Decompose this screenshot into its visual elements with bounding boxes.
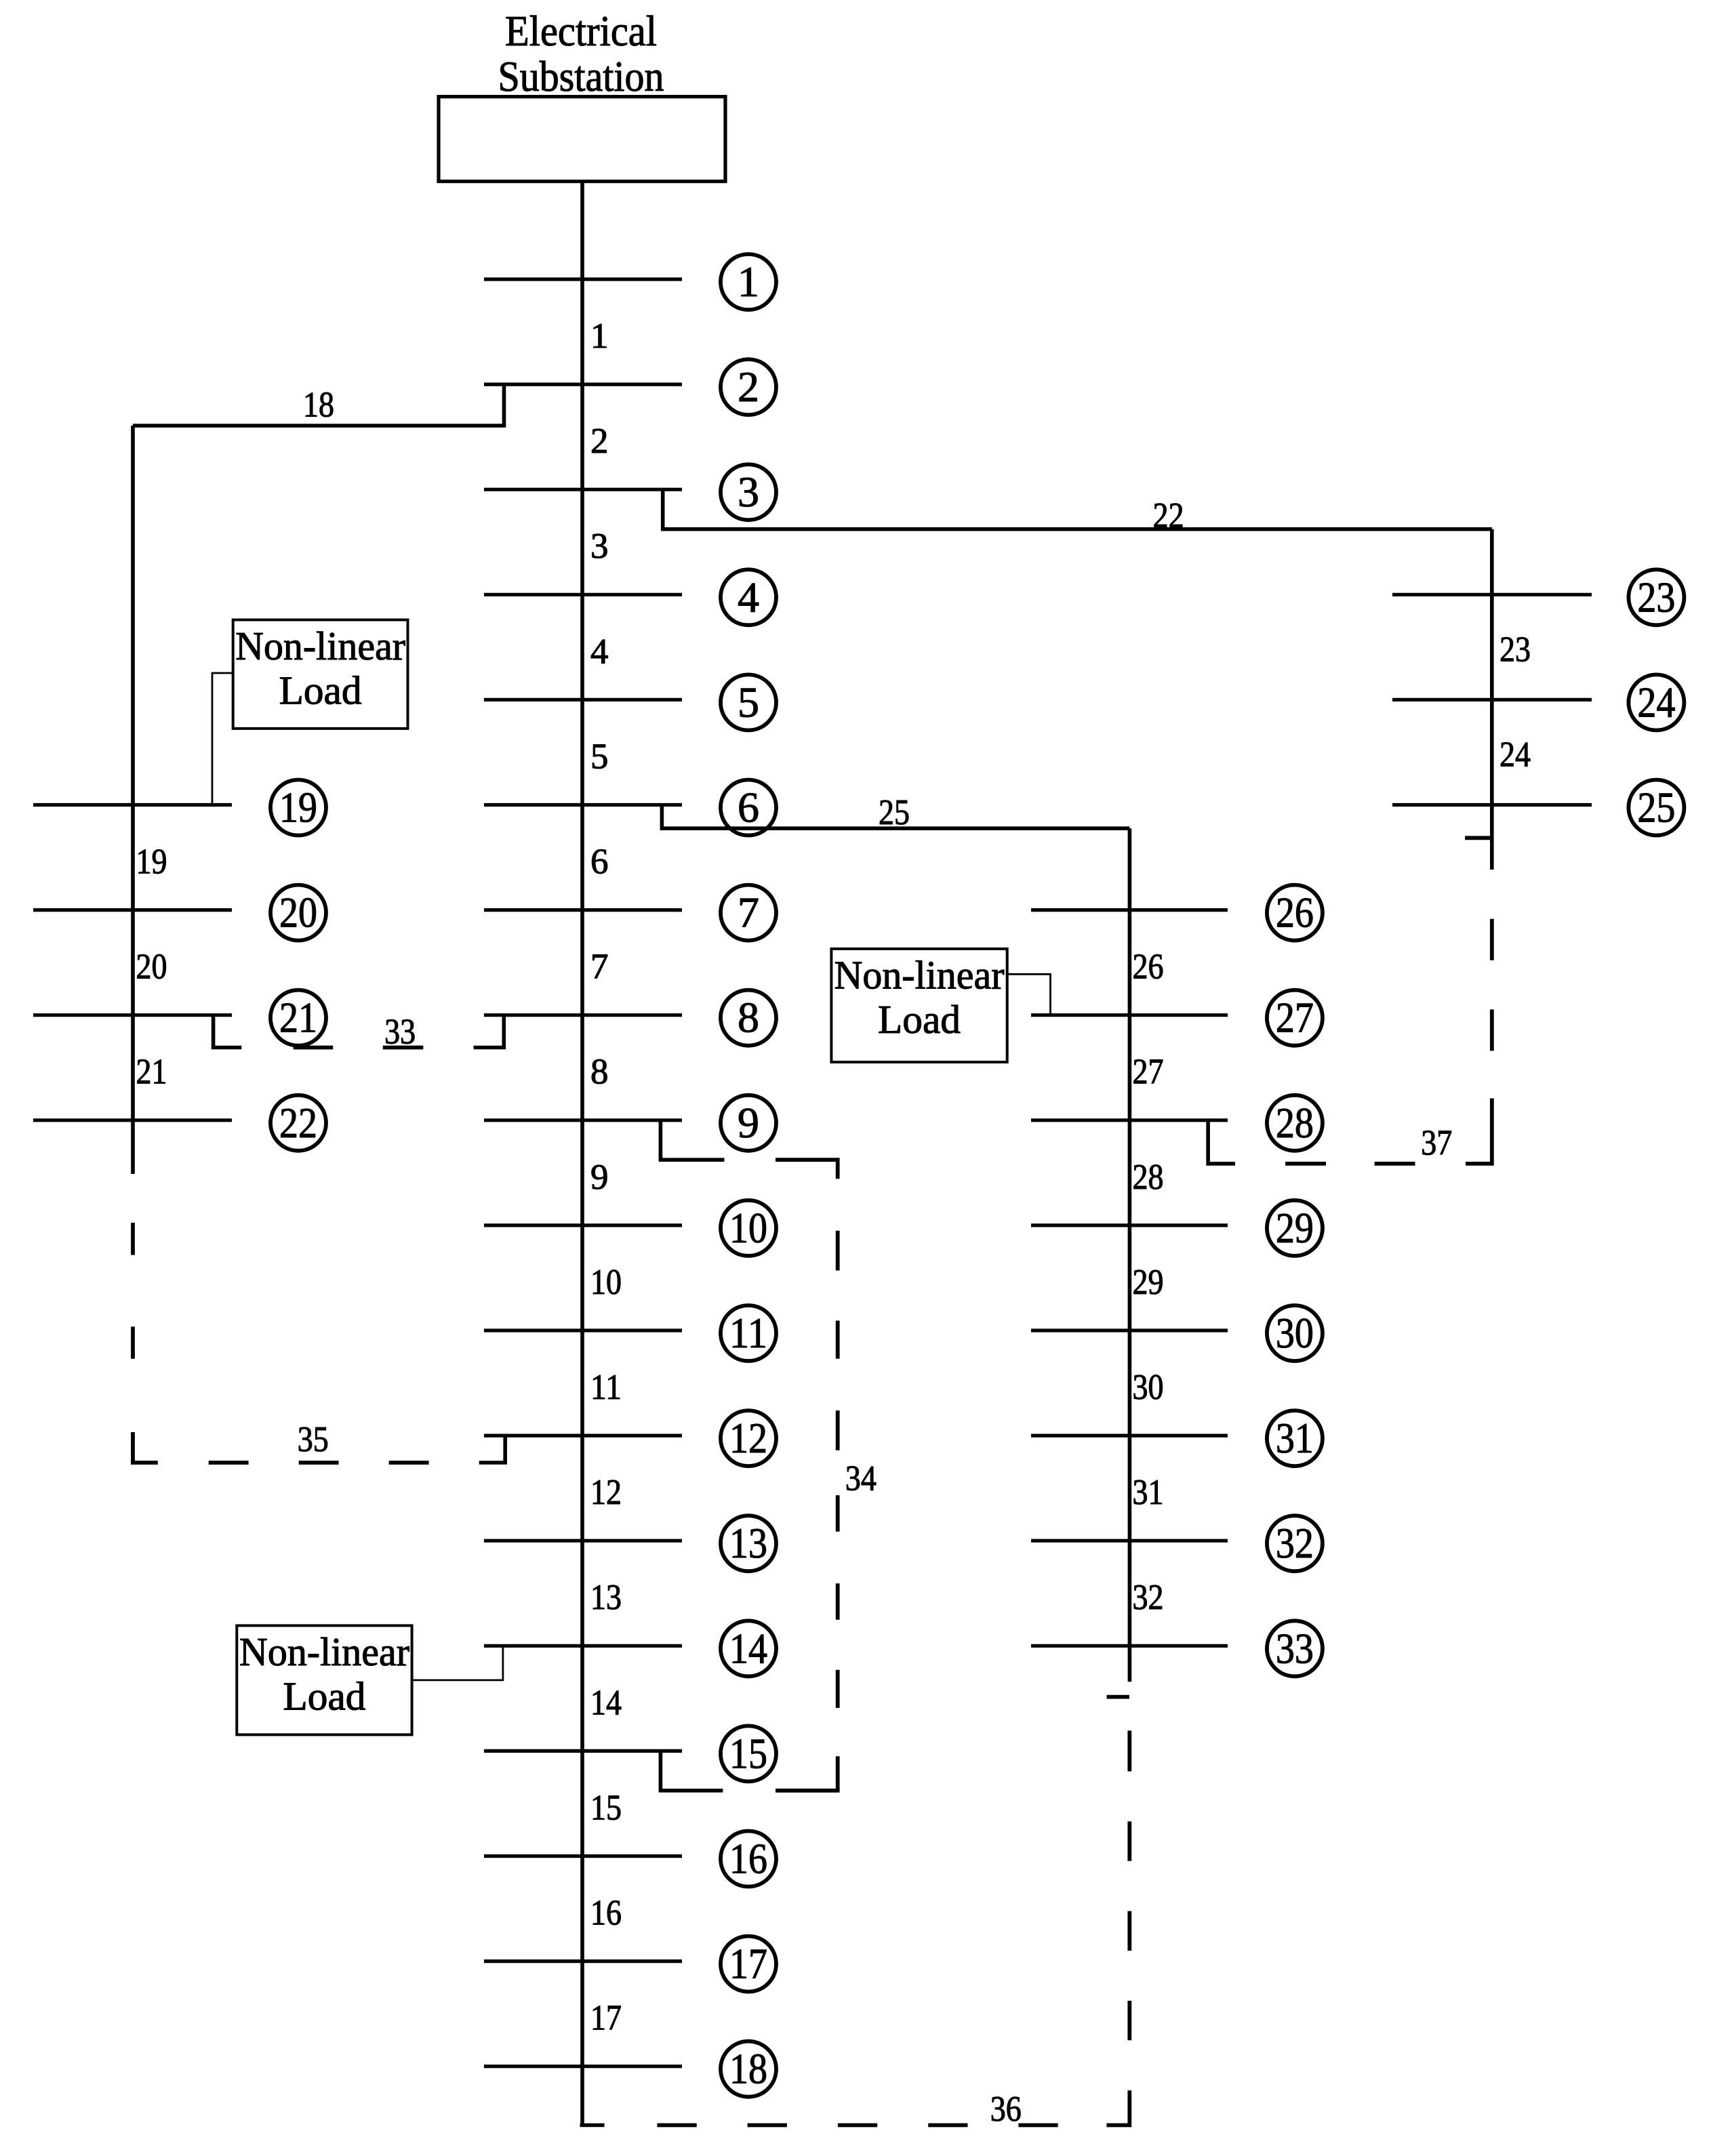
svg-text:14: 14 bbox=[729, 1624, 767, 1672]
svg-text:Substation: Substation bbox=[498, 52, 664, 100]
bus 23 bar bbox=[1392, 593, 1592, 596]
tie line 34 dash 3 bbox=[836, 1410, 840, 1450]
bus 10 bar bbox=[484, 1223, 682, 1227]
tie line 37 corner dash bbox=[1466, 1099, 1492, 1164]
tie line 36 dash 5 bbox=[1018, 2123, 1058, 2128]
node 25 circle bbox=[1628, 780, 1684, 836]
bus 14 bar bbox=[484, 1644, 682, 1648]
tie line 37 dash b bbox=[1375, 1162, 1415, 1166]
svg-text:Non-linear: Non-linear bbox=[239, 1629, 409, 1674]
svg-text:27: 27 bbox=[1133, 1053, 1164, 1092]
tie line 34 top jog (from bus 9) bbox=[660, 1120, 724, 1160]
node 9 circle bbox=[721, 1095, 776, 1151]
svg-text:21: 21 bbox=[279, 994, 317, 1042]
tie line 36 vertical dash 2 bbox=[1127, 1911, 1131, 1951]
svg-text:5: 5 bbox=[590, 737, 609, 776]
bus 6 bar bbox=[484, 803, 682, 807]
tie line 34 dash 1 bbox=[836, 1231, 840, 1271]
svg-text:Electrical: Electrical bbox=[505, 7, 657, 55]
non-linear load 3 box bbox=[237, 1625, 411, 1734]
tie line 37 left jog (from bus 28) bbox=[1208, 1120, 1235, 1164]
svg-text:18: 18 bbox=[729, 2045, 767, 2093]
bus 22 bar bbox=[33, 1118, 232, 1122]
node 11 circle bbox=[721, 1305, 776, 1361]
svg-text:12: 12 bbox=[590, 1473, 622, 1512]
svg-text:10: 10 bbox=[590, 1263, 622, 1302]
tie line 36 vertical dash 4 bbox=[1127, 1730, 1131, 1771]
bus 28 bar bbox=[1031, 1118, 1228, 1122]
svg-text:28: 28 bbox=[1133, 1158, 1164, 1197]
tie line 34 corner dash bottom bbox=[776, 1756, 838, 1791]
non-linear load 2 connection wire to bus 27 bbox=[1007, 974, 1051, 1015]
bus 25 bar bbox=[1392, 803, 1592, 807]
node 20 circle bbox=[270, 885, 326, 941]
svg-text:11: 11 bbox=[590, 1368, 622, 1407]
node 32 circle bbox=[1267, 1516, 1323, 1571]
svg-text:15: 15 bbox=[590, 1788, 622, 1827]
svg-text:21: 21 bbox=[136, 1053, 167, 1092]
bus 2 bar bbox=[484, 382, 682, 386]
svg-text:7: 7 bbox=[590, 948, 609, 987]
bus 19 bar bbox=[33, 803, 232, 807]
wire 25 (bus6 to buses 26-33 branch) bbox=[662, 805, 1129, 829]
bus 31 bar bbox=[1031, 1434, 1228, 1438]
svg-text:11: 11 bbox=[729, 1309, 767, 1357]
left branch feeder (buses 19-22) bbox=[131, 426, 135, 1174]
tie line 33 dash a bbox=[294, 1046, 334, 1050]
bus 5 bar bbox=[484, 698, 682, 701]
svg-text:23: 23 bbox=[1499, 630, 1531, 669]
tie line 36 end tick (below bus 33) bbox=[1107, 1695, 1129, 1699]
bus 13 bar bbox=[484, 1539, 682, 1543]
svg-text:3: 3 bbox=[738, 468, 759, 516]
tie line 36 corner dash bbox=[1106, 2090, 1129, 2125]
svg-text:37: 37 bbox=[1421, 1124, 1452, 1163]
svg-text:25: 25 bbox=[1637, 784, 1675, 832]
bus 12 bar bbox=[484, 1434, 682, 1438]
node 30 circle bbox=[1267, 1305, 1323, 1361]
node 6 circle bbox=[721, 780, 776, 836]
node 21 circle bbox=[270, 990, 326, 1046]
tie line 36 start piece at main feeder bbox=[580, 2123, 605, 2128]
svg-text:Non-linear: Non-linear bbox=[834, 953, 1005, 998]
tie line 36 dash 1 bbox=[657, 2123, 696, 2128]
svg-text:28: 28 bbox=[1276, 1099, 1314, 1147]
svg-text:23: 23 bbox=[1637, 573, 1675, 621]
svg-text:20: 20 bbox=[136, 948, 167, 987]
svg-text:19: 19 bbox=[279, 784, 317, 832]
tie line 34 bottom jog (to bus 15) bbox=[660, 1751, 723, 1790]
node 15 circle bbox=[721, 1726, 776, 1781]
svg-text:32: 32 bbox=[1276, 1519, 1314, 1567]
svg-text:14: 14 bbox=[590, 1683, 622, 1722]
svg-text:9: 9 bbox=[590, 1158, 609, 1197]
bus 33 bar bbox=[1031, 1644, 1228, 1648]
node 23 circle bbox=[1628, 569, 1684, 625]
bus 9 bar bbox=[484, 1118, 682, 1122]
wire 18 (bus2 to left branch) bbox=[133, 384, 504, 426]
tie line 37 dash d bbox=[1490, 919, 1494, 960]
far right feeder (buses 23-25) bbox=[1490, 529, 1494, 870]
tie line 36 dash 3 bbox=[838, 2123, 877, 2128]
node 29 circle bbox=[1267, 1200, 1323, 1256]
node 18 circle bbox=[721, 2041, 776, 2097]
node 33 circle bbox=[1267, 1621, 1323, 1676]
node 3 circle bbox=[721, 464, 776, 520]
tie line 35 dash b bbox=[131, 1326, 135, 1358]
tie line 34 corner dash top bbox=[776, 1160, 838, 1179]
svg-text:15: 15 bbox=[729, 1729, 767, 1777]
non-linear load 2 box bbox=[831, 949, 1007, 1062]
bus 7 bar bbox=[484, 908, 682, 912]
tie line 33 dash b bbox=[383, 1046, 424, 1050]
svg-text:4: 4 bbox=[590, 632, 609, 671]
middle right feeder (buses 26-33) bbox=[1128, 828, 1132, 1682]
svg-text:17: 17 bbox=[590, 1999, 622, 2038]
svg-text:1: 1 bbox=[738, 258, 759, 306]
node 27 circle bbox=[1267, 990, 1323, 1046]
svg-text:Load: Load bbox=[279, 668, 362, 713]
bus 32 bar bbox=[1031, 1539, 1228, 1543]
svg-text:16: 16 bbox=[590, 1894, 622, 1933]
electrical substation box bbox=[439, 97, 725, 182]
node 14 circle bbox=[721, 1621, 776, 1676]
svg-text:3: 3 bbox=[590, 527, 609, 566]
svg-text:24: 24 bbox=[1637, 678, 1675, 726]
bus 1 bar bbox=[484, 277, 682, 281]
tie line 36 vertical dash 3 bbox=[1127, 1821, 1131, 1860]
node 12 circle bbox=[721, 1410, 776, 1466]
svg-text:34: 34 bbox=[845, 1459, 877, 1499]
bus 21 bar bbox=[33, 1013, 232, 1017]
svg-text:Non-linear: Non-linear bbox=[235, 624, 405, 668]
node 4 circle bbox=[721, 569, 776, 625]
bus 8 bar bbox=[484, 1013, 682, 1017]
svg-text:30: 30 bbox=[1276, 1309, 1314, 1357]
svg-text:13: 13 bbox=[729, 1519, 767, 1567]
node 22 circle bbox=[270, 1095, 326, 1151]
svg-text:10: 10 bbox=[729, 1204, 767, 1252]
tie line 35 dash a bbox=[131, 1223, 135, 1255]
tie line 37 dash a bbox=[1285, 1162, 1326, 1166]
svg-text:19: 19 bbox=[136, 842, 167, 882]
svg-text:30: 30 bbox=[1133, 1368, 1164, 1407]
node 28 circle bbox=[1267, 1095, 1323, 1151]
non-linear load 3 connection wire to bus 14 bbox=[412, 1646, 503, 1680]
svg-text:22: 22 bbox=[279, 1099, 317, 1147]
svg-text:17: 17 bbox=[729, 1940, 767, 1988]
svg-text:35: 35 bbox=[298, 1420, 329, 1459]
node 7 circle bbox=[721, 885, 776, 941]
svg-text:2: 2 bbox=[590, 422, 609, 461]
node 5 circle bbox=[721, 674, 776, 730]
tie line 35 corner dash bbox=[133, 1432, 158, 1463]
node 17 circle bbox=[721, 1936, 776, 1992]
tie line 35 dash d bbox=[299, 1461, 339, 1465]
bus 24 bar bbox=[1392, 698, 1592, 701]
svg-text:9: 9 bbox=[738, 1099, 759, 1147]
node 24 circle bbox=[1628, 674, 1684, 730]
svg-text:4: 4 bbox=[738, 573, 759, 621]
bus 18 bar bbox=[484, 2065, 682, 2068]
svg-text:22: 22 bbox=[1153, 496, 1184, 535]
bus 16 bar bbox=[484, 1854, 682, 1858]
svg-text:8: 8 bbox=[738, 994, 759, 1042]
tie line 35 dash e bbox=[389, 1461, 429, 1465]
svg-text:32: 32 bbox=[1133, 1578, 1164, 1617]
bus 30 bar bbox=[1031, 1328, 1228, 1332]
node 8 circle bbox=[721, 990, 776, 1046]
svg-text:13: 13 bbox=[590, 1578, 622, 1617]
main feeder (substation to bus 18 end) bbox=[580, 182, 584, 2126]
bus 29 bar bbox=[1031, 1223, 1228, 1227]
svg-text:25: 25 bbox=[879, 793, 910, 832]
tie line 34 dash 2 bbox=[836, 1321, 840, 1359]
svg-text:7: 7 bbox=[738, 889, 759, 937]
tie line 33 right jog (to bus 8) bbox=[474, 1015, 504, 1048]
svg-text:31: 31 bbox=[1133, 1473, 1164, 1512]
svg-text:33: 33 bbox=[1276, 1624, 1314, 1672]
tie line 35 right jog (to bus 12) bbox=[479, 1436, 506, 1463]
svg-text:12: 12 bbox=[729, 1414, 767, 1462]
node 16 circle bbox=[721, 1831, 776, 1887]
svg-text:26: 26 bbox=[1133, 948, 1164, 987]
node 2 circle bbox=[721, 359, 776, 415]
tie line 37 dash c bbox=[1490, 1009, 1494, 1051]
node 31 circle bbox=[1267, 1410, 1323, 1466]
bus 17 bar bbox=[484, 1959, 682, 1963]
svg-text:Load: Load bbox=[878, 997, 961, 1042]
svg-text:29: 29 bbox=[1133, 1263, 1164, 1302]
tie line 35 dash c bbox=[209, 1461, 249, 1465]
svg-text:24: 24 bbox=[1499, 735, 1531, 774]
svg-text:18: 18 bbox=[303, 386, 334, 425]
svg-text:6: 6 bbox=[738, 784, 759, 832]
bus 4 bar bbox=[484, 593, 682, 596]
svg-text:2: 2 bbox=[738, 363, 759, 411]
svg-text:1: 1 bbox=[590, 317, 609, 356]
tie line 34 dash 5 bbox=[836, 1583, 840, 1620]
tie line 36 dash 2 bbox=[748, 2123, 787, 2128]
svg-text:8: 8 bbox=[590, 1053, 609, 1092]
node 10 circle bbox=[721, 1200, 776, 1256]
node 13 circle bbox=[721, 1516, 776, 1571]
tie line 34 dash 4 bbox=[836, 1495, 840, 1532]
node 26 circle bbox=[1267, 885, 1323, 941]
tie line 34 dash 6 bbox=[836, 1670, 840, 1708]
svg-text:29: 29 bbox=[1276, 1204, 1314, 1252]
tie line 36 vertical dash 1 bbox=[1127, 2001, 1131, 2040]
bus 3 bar bbox=[484, 488, 682, 491]
svg-text:6: 6 bbox=[590, 842, 609, 882]
svg-text:26: 26 bbox=[1276, 889, 1314, 937]
node 19 circle bbox=[270, 780, 326, 836]
tie line 33 left jog (from bus 21) bbox=[214, 1015, 242, 1048]
node 1 circle bbox=[721, 254, 776, 310]
bus 20 bar bbox=[33, 908, 232, 912]
tie line 36 dash 4 bbox=[928, 2123, 967, 2128]
svg-text:Load: Load bbox=[283, 1673, 366, 1718]
svg-text:16: 16 bbox=[729, 1835, 767, 1883]
svg-text:33: 33 bbox=[384, 1013, 416, 1052]
svg-text:20: 20 bbox=[279, 889, 317, 937]
non-linear load 1 box bbox=[233, 620, 408, 729]
wire 22 (bus3 to buses 23-25 branch) bbox=[663, 489, 1492, 529]
bus 11 bar bbox=[484, 1328, 682, 1332]
bus 15 bar bbox=[484, 1749, 682, 1753]
bus 27 bar bbox=[1031, 1013, 1228, 1017]
tie line 37 end tick (below bus 25) bbox=[1465, 836, 1492, 840]
bus 26 bar bbox=[1031, 908, 1228, 912]
svg-text:27: 27 bbox=[1276, 994, 1314, 1042]
non-linear load 1 connection wire to bus 19 bbox=[212, 673, 233, 805]
svg-text:36: 36 bbox=[990, 2090, 1022, 2129]
svg-text:31: 31 bbox=[1276, 1414, 1314, 1462]
svg-text:5: 5 bbox=[738, 678, 759, 726]
